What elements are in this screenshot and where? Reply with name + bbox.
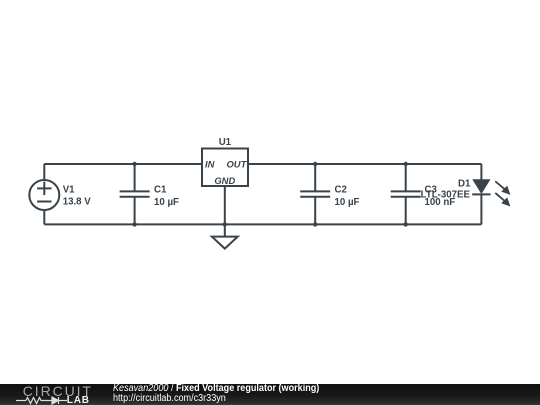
svg-text:V1: V1 [63, 184, 75, 195]
label D1 LTL-307EE [421, 178, 471, 200]
svg-text:D1: D1 [458, 178, 471, 189]
pin OUT [227, 159, 248, 170]
CircuitLab logo [23, 383, 93, 399]
node junction GND-rail [223, 222, 227, 226]
LED D1 [472, 164, 490, 224]
pin IN [205, 159, 215, 170]
svg-text:C1: C1 [154, 185, 167, 196]
label C3 value 100 nF [425, 185, 456, 208]
svg-text:C2: C2 [335, 185, 347, 196]
footer text [113, 384, 319, 403]
LED light arrow 2 [495, 193, 509, 206]
wire top rail left (V1 to U1.IN) [44, 163, 202, 165]
svg-text:GND: GND [214, 175, 235, 186]
node junction C3 top [404, 162, 408, 166]
node junction C1 bottom [132, 222, 136, 226]
svg-text:LTL-307EE: LTL-307EE [421, 190, 471, 201]
node junction C1 top [132, 162, 136, 166]
label U1 [219, 137, 232, 148]
node junction C2 top [313, 162, 317, 166]
svg-text:OUT: OUT [227, 159, 248, 170]
capacitor C2 [300, 164, 330, 224]
LED light arrow 1 [495, 181, 509, 194]
label V1 value 13.8 V [63, 184, 92, 207]
svg-text:10 µF: 10 µF [154, 197, 179, 208]
svg-text:10 µF: 10 µF [335, 197, 360, 208]
footer bar [0, 384, 540, 405]
label C1 value 10 uF [154, 185, 179, 208]
node junction C2 bottom [313, 222, 317, 226]
capacitor C1 [120, 164, 150, 224]
svg-text:U1: U1 [219, 137, 232, 148]
wire top rail right (U1.OUT to D1) [248, 163, 481, 165]
node junction C3 bottom [404, 222, 408, 226]
ground symbol [212, 224, 238, 248]
wire bottom rail [44, 223, 481, 225]
wire U1 GND stem [224, 186, 226, 224]
label C2 value 10 uF [335, 185, 360, 208]
op-amp U1 regulator box [202, 149, 248, 187]
capacitor C3 [391, 164, 421, 224]
svg-text:IN: IN [205, 159, 215, 170]
pin GND [214, 175, 235, 186]
svg-text:13.8 V: 13.8 V [63, 196, 92, 207]
voltage source V1 [29, 164, 59, 224]
